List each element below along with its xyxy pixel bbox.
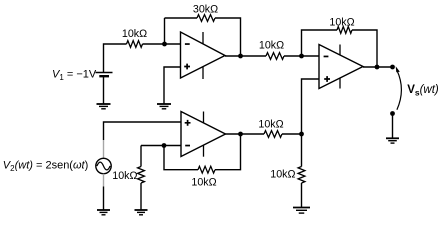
resistor R1 10k bbox=[127, 41, 143, 48]
wire R8 to divider node bbox=[282, 133, 302, 135]
svg-text:30kΩ: 30kΩ bbox=[193, 4, 218, 16]
resistor R8 10k bbox=[264, 131, 282, 138]
wire U3 non-inverting input bbox=[302, 79, 320, 134]
wire V2 bottom to ground bbox=[103, 187, 105, 211]
resistor R2 30k bbox=[197, 15, 215, 22]
wire U1 non-inverting input to ground bbox=[164, 67, 181, 104]
wire U2 feedback down segment bbox=[164, 146, 198, 170]
wire U2 non-inverting input from source bbox=[104, 122, 182, 140]
wire U3 output bbox=[363, 66, 393, 68]
resistor R5 10k feedback U2 bbox=[198, 166, 215, 173]
node divider dot bbox=[299, 132, 304, 137]
svg-text:10kΩ: 10kΩ bbox=[258, 119, 283, 131]
node output terminal dot bbox=[390, 65, 395, 70]
svg-text:V2(wt) = 2sen(ωt): V2(wt) = 2sen(ωt) bbox=[3, 160, 88, 174]
wire U2 output bbox=[226, 133, 265, 135]
node feedback junction dot bbox=[375, 65, 380, 70]
wire battery bottom to ground bbox=[103, 76, 105, 104]
battery V1 bbox=[96, 73, 113, 77]
node U1 output dot bbox=[238, 54, 243, 59]
wire R7 to ground bbox=[301, 183, 303, 208]
wire feedback left segment bbox=[165, 17, 198, 19]
wire U2 inverting input bbox=[141, 145, 181, 147]
ground output bbox=[386, 137, 399, 139]
op-amp U1 bbox=[181, 32, 226, 79]
svg-text:10kΩ: 10kΩ bbox=[270, 169, 295, 181]
wire R3 to U3 inverting input bbox=[284, 55, 319, 57]
resistor R4 10k feedback U3 bbox=[337, 27, 352, 34]
wire down to R6 bbox=[140, 146, 142, 167]
wire R4 to U3 output bbox=[352, 30, 377, 67]
source V2 AC bbox=[96, 158, 111, 173]
ground U1 plus input bbox=[157, 103, 171, 105]
resistor R3 10k bbox=[266, 53, 284, 60]
arrow Vs measurement arc bbox=[396, 66, 402, 109]
resistor R7 10k vertical bbox=[298, 167, 305, 184]
svg-text:10kΩ: 10kΩ bbox=[122, 28, 147, 40]
wire U1 output bbox=[225, 55, 266, 57]
node U2 output dot bbox=[238, 132, 243, 137]
wire R6 to ground bbox=[140, 183, 142, 210]
svg-text:10kΩ: 10kΩ bbox=[112, 170, 137, 182]
ground V2 bbox=[97, 209, 110, 211]
svg-text:10kΩ: 10kΩ bbox=[259, 40, 284, 52]
wire gray pin top of V2 bbox=[103, 140, 105, 158]
op-amp U2 bbox=[181, 112, 226, 157]
ground R6 bbox=[135, 209, 148, 211]
wire U3 feedback up segment bbox=[302, 30, 338, 56]
wire gray pin bottom of V2 bbox=[103, 174, 105, 187]
svg-text:10kΩ: 10kΩ bbox=[329, 17, 354, 29]
wire feedback right segment down to U1 output bbox=[215, 18, 241, 56]
wire node A up to feedback bbox=[164, 18, 166, 44]
op-amp U3 bbox=[319, 45, 363, 89]
svg-text:10kΩ: 10kΩ bbox=[191, 177, 216, 189]
wire battery top to corner and right to R1 bbox=[104, 44, 127, 73]
ground battery bbox=[97, 103, 111, 105]
svg-text:Vs(wt): Vs(wt) bbox=[407, 84, 439, 98]
wire lower terminal to ground bbox=[392, 114, 394, 139]
ground R7 bbox=[293, 207, 310, 209]
wire divider node down to R7 bbox=[301, 134, 303, 167]
svg-text:V1 = −1V: V1 = −1V bbox=[52, 69, 97, 83]
node lower terminal dot bbox=[390, 111, 395, 116]
node A junction dot bbox=[162, 42, 167, 47]
wire R5 up to U2 output bbox=[215, 134, 241, 170]
node U3 inverting input dot bbox=[299, 54, 304, 59]
wire R1 to U1 inverting input bbox=[143, 43, 181, 45]
node U2 inverting dot bbox=[162, 143, 167, 148]
resistor R6 10k vertical bbox=[138, 167, 145, 184]
